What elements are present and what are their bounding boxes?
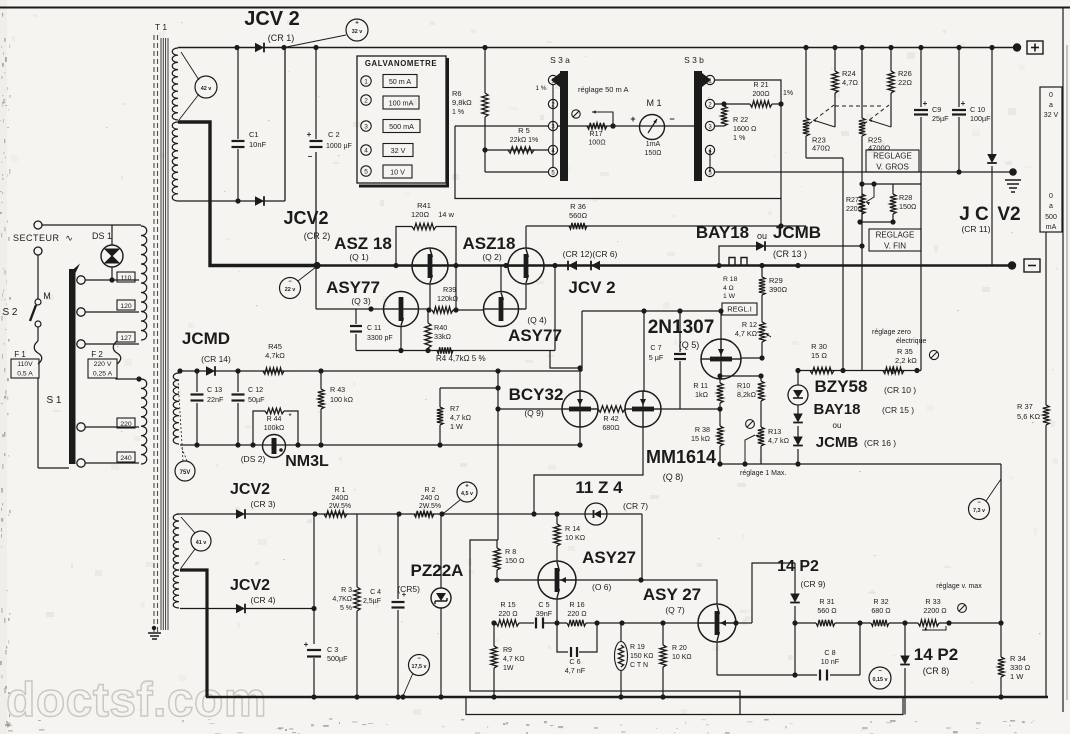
svg-text:R 8: R 8 xyxy=(505,547,516,556)
svg-text:(CR 11): (CR 11) xyxy=(961,224,990,234)
svg-text:R9: R9 xyxy=(503,647,512,654)
svg-text:10nF: 10nF xyxy=(249,140,267,149)
svg-text:2N1307: 2N1307 xyxy=(648,317,715,338)
svg-text:doctsf.com: doctsf.com xyxy=(6,674,267,727)
svg-text:150 Ω: 150 Ω xyxy=(505,556,525,565)
svg-text:V. GROS: V. GROS xyxy=(876,162,909,171)
svg-text:mA: mA xyxy=(1046,224,1057,231)
svg-text:+: + xyxy=(630,114,635,124)
svg-text:R 30: R 30 xyxy=(811,342,827,351)
svg-text:R 36: R 36 xyxy=(570,202,586,211)
svg-text:R 22: R 22 xyxy=(733,115,748,124)
svg-text:+: + xyxy=(307,130,312,139)
svg-text:R 16: R 16 xyxy=(569,600,584,609)
svg-text:(Q 7): (Q 7) xyxy=(665,605,685,615)
svg-text:R 38: R 38 xyxy=(695,425,710,434)
svg-text:C1: C1 xyxy=(249,130,259,139)
svg-text:3: 3 xyxy=(364,124,368,131)
svg-text:10 KΩ: 10 KΩ xyxy=(672,654,692,661)
svg-text:REGL.I: REGL.I xyxy=(727,305,752,314)
svg-text:4: 4 xyxy=(364,148,368,155)
svg-text:R 14: R 14 xyxy=(565,524,580,533)
svg-text:4,7Ω: 4,7Ω xyxy=(842,78,858,87)
svg-text:REGLAGE: REGLAGE xyxy=(876,230,915,239)
svg-text:50µF: 50µF xyxy=(248,395,265,404)
svg-text:4,7kΩ: 4,7kΩ xyxy=(265,351,285,360)
svg-text:J C: J C xyxy=(959,204,989,225)
svg-text:R45: R45 xyxy=(268,342,282,351)
svg-text:14 P2: 14 P2 xyxy=(914,645,958,664)
svg-text:R 18: R 18 xyxy=(723,276,738,283)
svg-text:réglage v. max: réglage v. max xyxy=(936,583,982,590)
svg-text:R 15: R 15 xyxy=(500,600,515,609)
svg-text:DS 1: DS 1 xyxy=(92,231,112,241)
svg-text:1 W: 1 W xyxy=(723,293,736,300)
svg-text:4,7 KΩ: 4,7 KΩ xyxy=(503,656,525,663)
svg-text:4,7 KΩ: 4,7 KΩ xyxy=(735,329,758,338)
svg-text:C 7: C 7 xyxy=(650,343,661,352)
svg-text:32 V: 32 V xyxy=(391,146,406,155)
svg-text:+: + xyxy=(355,21,359,27)
svg-text:560Ω: 560Ω xyxy=(569,211,588,220)
svg-text:−: − xyxy=(288,279,292,285)
svg-text:22kΩ 1%: 22kΩ 1% xyxy=(510,137,539,144)
svg-text:C 6: C 6 xyxy=(569,657,580,666)
svg-text:C 10: C 10 xyxy=(970,105,985,114)
svg-text:0: 0 xyxy=(1049,92,1053,99)
svg-text:R 19: R 19 xyxy=(630,644,645,651)
svg-text:1 %: 1 % xyxy=(733,133,746,142)
svg-text:22Ω: 22Ω xyxy=(898,78,912,87)
svg-text:1600 Ω: 1600 Ω xyxy=(733,124,757,133)
svg-text:C9: C9 xyxy=(932,105,941,114)
svg-text:PZ22A: PZ22A xyxy=(411,561,464,580)
svg-text:R 2: R 2 xyxy=(425,487,436,494)
svg-text:ou: ou xyxy=(833,421,842,430)
svg-text:R 32: R 32 xyxy=(873,597,888,606)
svg-text:S 2: S 2 xyxy=(2,307,17,318)
svg-text:R7: R7 xyxy=(450,404,459,413)
svg-text:220 Ω: 220 Ω xyxy=(498,609,518,618)
svg-text:électrique: électrique xyxy=(896,338,926,345)
svg-text:a: a xyxy=(1049,102,1053,109)
svg-text:(Q 3): (Q 3) xyxy=(351,296,371,306)
svg-text:F 2: F 2 xyxy=(91,350,103,359)
svg-text:*: * xyxy=(288,412,291,421)
svg-text:4 Ω: 4 Ω xyxy=(723,285,734,292)
svg-text:R 20: R 20 xyxy=(672,645,687,652)
svg-text:S 1: S 1 xyxy=(46,395,61,406)
svg-text:470Ω: 470Ω xyxy=(812,144,831,153)
svg-text:R39: R39 xyxy=(443,285,456,294)
svg-text:(Q 5): (Q 5) xyxy=(679,340,700,350)
svg-text:17,5 v: 17,5 v xyxy=(412,664,427,670)
svg-text:−: − xyxy=(417,656,421,662)
svg-text:3300 pF: 3300 pF xyxy=(367,335,393,342)
svg-text:240 Ω: 240 Ω xyxy=(421,495,440,502)
svg-text:(CR 10 ): (CR 10 ) xyxy=(884,385,916,395)
svg-text:R29: R29 xyxy=(769,276,783,285)
svg-text:32 V: 32 V xyxy=(1044,112,1059,119)
svg-text:0,15 v: 0,15 v xyxy=(873,677,888,683)
svg-text:JCV2: JCV2 xyxy=(230,481,270,498)
svg-text:BAY18: BAY18 xyxy=(814,401,861,418)
svg-text:C 5: C 5 xyxy=(538,600,549,609)
svg-text:1 %: 1 % xyxy=(535,85,546,92)
svg-text:(Q 4): (Q 4) xyxy=(527,315,547,325)
svg-text:−: − xyxy=(669,114,674,124)
svg-text:1 W: 1 W xyxy=(1010,672,1024,681)
svg-text:a: a xyxy=(1049,203,1053,210)
svg-text:GALVANOMETRE: GALVANOMETRE xyxy=(365,59,437,68)
svg-text:(CR 4): (CR 4) xyxy=(250,595,275,605)
svg-text:(Q 8): (Q 8) xyxy=(663,472,684,482)
svg-text:V. FIN: V. FIN xyxy=(884,241,906,250)
svg-text:560 Ω: 560 Ω xyxy=(817,606,837,615)
svg-text:22nF: 22nF xyxy=(207,395,224,404)
svg-text:10 V: 10 V xyxy=(390,167,405,176)
svg-text:R 11: R 11 xyxy=(693,381,708,390)
svg-text:220Ω: 220Ω xyxy=(846,206,863,213)
svg-text:100 mA: 100 mA xyxy=(389,98,414,107)
svg-text:C 2: C 2 xyxy=(328,130,340,139)
svg-text:330 Ω: 330 Ω xyxy=(1010,663,1031,672)
svg-text:R40: R40 xyxy=(434,323,447,332)
svg-text:(Q 1): (Q 1) xyxy=(349,252,369,262)
svg-text:+: + xyxy=(465,484,469,490)
svg-text:14 P2: 14 P2 xyxy=(777,558,819,575)
svg-text:réglage 50 m A: réglage 50 m A xyxy=(578,85,628,94)
svg-text:41 v: 41 v xyxy=(196,540,207,546)
svg-text:(Q 2): (Q 2) xyxy=(482,252,502,262)
svg-text:(CR 12)(CR 6): (CR 12)(CR 6) xyxy=(563,249,618,259)
svg-text:R 35: R 35 xyxy=(897,347,913,356)
svg-text:110V: 110V xyxy=(17,361,33,368)
svg-text:R 33: R 33 xyxy=(925,597,940,606)
svg-text:680 Ω: 680 Ω xyxy=(871,606,891,615)
svg-text:JCV 2: JCV 2 xyxy=(244,8,300,30)
svg-text:(CR 8): (CR 8) xyxy=(923,666,950,676)
svg-text:10 nF: 10 nF xyxy=(821,657,840,666)
svg-text:ASY 27: ASY 27 xyxy=(643,585,701,604)
svg-text:R27: R27 xyxy=(846,197,859,204)
svg-text:4,7 nF: 4,7 nF xyxy=(565,666,586,675)
svg-text:15 kΩ: 15 kΩ xyxy=(691,434,711,443)
svg-text:JCMB: JCMB xyxy=(816,434,859,451)
svg-text:(CR 9): (CR 9) xyxy=(800,579,825,589)
svg-text:(CR5): (CR5) xyxy=(397,584,420,594)
svg-text:0: 0 xyxy=(1049,193,1053,200)
svg-text:(CR 16 ): (CR 16 ) xyxy=(864,438,896,448)
svg-text:V2: V2 xyxy=(997,204,1020,225)
svg-text:680Ω: 680Ω xyxy=(602,423,620,432)
svg-text:(CR 14): (CR 14) xyxy=(201,354,231,364)
svg-text:ou: ou xyxy=(757,231,767,241)
svg-text:M 1: M 1 xyxy=(646,98,661,108)
svg-text:F 1: F 1 xyxy=(14,350,26,359)
svg-text:25µF: 25µF xyxy=(932,114,949,123)
svg-text:7,3 v: 7,3 v xyxy=(973,508,985,514)
svg-text:(CR 2): (CR 2) xyxy=(304,231,331,241)
svg-text:2W.5%: 2W.5% xyxy=(419,503,441,510)
svg-text:−: − xyxy=(308,152,313,161)
svg-text:100µF: 100µF xyxy=(970,114,991,123)
svg-text:S 3 a: S 3 a xyxy=(550,55,570,65)
svg-text:32 v: 32 v xyxy=(352,29,363,35)
svg-text:50 m A: 50 m A xyxy=(389,77,412,86)
svg-text:2,5µF: 2,5µF xyxy=(363,598,381,605)
svg-text:150Ω: 150Ω xyxy=(645,150,662,157)
svg-text:1kΩ: 1kΩ xyxy=(695,390,709,399)
svg-text:R 1: R 1 xyxy=(335,487,346,494)
svg-text:150 KΩ: 150 KΩ xyxy=(630,653,654,660)
svg-text:100kΩ: 100kΩ xyxy=(264,425,284,432)
svg-text:T 1: T 1 xyxy=(155,22,167,32)
svg-text:−: − xyxy=(878,669,882,675)
svg-text:240Ω: 240Ω xyxy=(332,495,349,502)
svg-text:33kΩ: 33kΩ xyxy=(434,332,452,341)
svg-text:5,6 KΩ: 5,6 KΩ xyxy=(1017,412,1041,421)
svg-text:R28: R28 xyxy=(899,193,912,202)
svg-text:R41: R41 xyxy=(417,201,431,210)
svg-text:110: 110 xyxy=(121,275,132,282)
svg-text:15 Ω: 15 Ω xyxy=(811,351,827,360)
svg-text:R 21: R 21 xyxy=(753,80,768,89)
svg-text:C 3: C 3 xyxy=(327,645,338,654)
svg-text:réglage 1 Max.: réglage 1 Max. xyxy=(740,470,786,477)
svg-text:R4 4,7kΩ 5 %: R4 4,7kΩ 5 % xyxy=(436,354,486,363)
svg-text:9,8kΩ: 9,8kΩ xyxy=(452,98,472,107)
svg-text:100 kΩ: 100 kΩ xyxy=(330,395,354,404)
svg-text:BZY58: BZY58 xyxy=(815,377,868,396)
svg-text:+: + xyxy=(961,99,966,108)
svg-text:R 3: R 3 xyxy=(341,587,352,594)
svg-text:C 8: C 8 xyxy=(824,648,835,657)
svg-text:ASZ18: ASZ18 xyxy=(463,234,516,253)
svg-text:1000 µF: 1000 µF xyxy=(326,143,352,150)
svg-text:4,7 kΩ: 4,7 kΩ xyxy=(450,413,472,422)
svg-text:0,5 A: 0,5 A xyxy=(17,371,33,378)
svg-text:R 5: R 5 xyxy=(518,126,530,135)
svg-text:M: M xyxy=(43,291,51,301)
svg-text:75V: 75V xyxy=(180,470,191,476)
svg-text:(CR 15 ): (CR 15 ) xyxy=(882,405,914,415)
svg-text:R 31: R 31 xyxy=(819,597,834,606)
svg-text:+: + xyxy=(304,640,309,649)
svg-text:10 KΩ: 10 KΩ xyxy=(565,533,586,542)
svg-text:R 12: R 12 xyxy=(742,320,757,329)
svg-text:4,7KΩ: 4,7KΩ xyxy=(332,596,352,603)
svg-text:0,25 A: 0,25 A xyxy=(93,371,113,378)
svg-text:2,2 kΩ: 2,2 kΩ xyxy=(895,356,917,365)
svg-text:R6: R6 xyxy=(452,89,462,98)
svg-text:1W: 1W xyxy=(503,665,514,672)
svg-text:C 12: C 12 xyxy=(248,385,263,394)
svg-text:ASY27: ASY27 xyxy=(582,548,636,567)
svg-text:220 Ω: 220 Ω xyxy=(567,609,587,618)
svg-text:500µF: 500µF xyxy=(327,654,348,663)
svg-text:4,7 kΩ: 4,7 kΩ xyxy=(768,436,790,445)
svg-text:R 43: R 43 xyxy=(330,385,345,394)
svg-text:R26: R26 xyxy=(898,69,912,78)
svg-text:C 4: C 4 xyxy=(370,589,381,596)
svg-text:(CR 13 ): (CR 13 ) xyxy=(773,249,807,259)
svg-text:2: 2 xyxy=(364,98,368,105)
svg-text:100Ω: 100Ω xyxy=(588,138,606,147)
svg-text:ASZ 18: ASZ 18 xyxy=(334,234,392,253)
svg-text:S 3 b: S 3 b xyxy=(684,55,704,65)
svg-text:42 v: 42 v xyxy=(201,86,212,92)
svg-text:14 w: 14 w xyxy=(438,210,454,219)
svg-text:C T N: C T N xyxy=(630,662,648,669)
svg-text:(CR 1): (CR 1) xyxy=(268,33,295,43)
svg-text:REGLAGE: REGLAGE xyxy=(873,151,912,160)
svg-text:120Ω: 120Ω xyxy=(411,210,430,219)
svg-text:240: 240 xyxy=(120,455,132,462)
svg-text:C 11: C 11 xyxy=(367,325,381,332)
svg-text:390Ω: 390Ω xyxy=(769,285,788,294)
svg-text:(DS 2): (DS 2) xyxy=(241,454,266,464)
svg-text:JCV2: JCV2 xyxy=(230,577,270,594)
svg-text:R 34: R 34 xyxy=(1010,654,1026,663)
svg-text:R24: R24 xyxy=(842,69,856,78)
svg-text:5 µF: 5 µF xyxy=(649,353,664,362)
svg-text:réglage zero: réglage zero xyxy=(872,329,911,336)
svg-text:(O 6): (O 6) xyxy=(592,582,612,592)
svg-text:JCV2: JCV2 xyxy=(283,208,328,228)
svg-text:∿: ∿ xyxy=(65,233,73,243)
svg-text:220 V: 220 V xyxy=(94,361,112,368)
svg-text:2W.5%: 2W.5% xyxy=(329,503,351,510)
svg-text:500 mA: 500 mA xyxy=(389,122,414,131)
svg-text:R 42: R 42 xyxy=(603,414,618,423)
svg-text:120kΩ: 120kΩ xyxy=(437,294,459,303)
svg-text:(CR 3): (CR 3) xyxy=(250,499,275,509)
svg-text:2200 Ω: 2200 Ω xyxy=(923,606,947,615)
svg-text:127: 127 xyxy=(120,335,132,342)
svg-text:R13: R13 xyxy=(768,427,781,436)
svg-text:1%: 1% xyxy=(783,90,793,97)
svg-text:NM3L: NM3L xyxy=(285,453,329,470)
svg-text:JCMD: JCMD xyxy=(182,329,230,348)
svg-text:BCY32: BCY32 xyxy=(509,385,564,404)
svg-text:R 44: R 44 xyxy=(267,416,282,423)
svg-text:JCV 2: JCV 2 xyxy=(568,278,615,297)
svg-text:MM1614: MM1614 xyxy=(646,447,716,467)
svg-text:22 v: 22 v xyxy=(285,287,296,293)
svg-text:5 %: 5 % xyxy=(340,605,352,612)
svg-text:11 Z 4: 11 Z 4 xyxy=(575,478,623,497)
svg-text:220: 220 xyxy=(120,421,132,428)
svg-text:SECTEUR: SECTEUR xyxy=(13,233,60,243)
svg-text:1mA: 1mA xyxy=(646,141,661,148)
svg-text:(CR 7): (CR 7) xyxy=(623,501,648,511)
svg-text:1 %: 1 % xyxy=(452,109,464,116)
svg-text:1 W: 1 W xyxy=(450,422,463,431)
svg-text:500: 500 xyxy=(1045,214,1057,221)
svg-text:ASY77: ASY77 xyxy=(326,278,380,297)
svg-text:5: 5 xyxy=(364,169,368,176)
svg-text:ASY77: ASY77 xyxy=(508,326,562,345)
svg-text:120: 120 xyxy=(120,303,132,310)
svg-text:−: − xyxy=(977,500,981,506)
svg-text:39nF: 39nF xyxy=(536,609,553,618)
svg-text:C 13: C 13 xyxy=(207,385,222,394)
svg-text:+: + xyxy=(923,99,928,108)
svg-text:R 37: R 37 xyxy=(1017,402,1033,411)
svg-text:4,5 v: 4,5 v xyxy=(461,491,473,497)
svg-text:R10: R10 xyxy=(737,381,750,390)
svg-text:1: 1 xyxy=(364,79,368,86)
svg-text:150Ω: 150Ω xyxy=(899,202,917,211)
svg-text:8,2kΩ: 8,2kΩ xyxy=(737,390,757,399)
svg-text:200Ω: 200Ω xyxy=(752,89,770,98)
